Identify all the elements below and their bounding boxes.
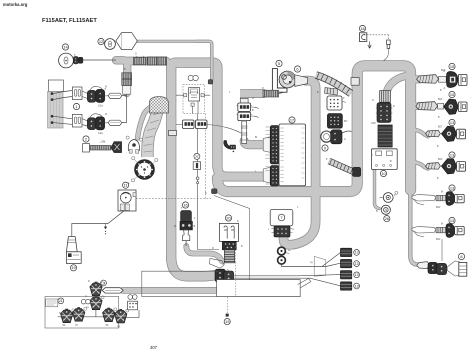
- rectifier connector: [376, 103, 393, 123]
- node 26 label: [384, 216, 390, 222]
- svg-text:P: P: [343, 98, 345, 100]
- wire harness outlines layer: [116, 41, 428, 290]
- svg-text:F115AET, FL115AET: F115AET, FL115AET: [42, 18, 97, 24]
- svg-text:13: 13: [450, 218, 454, 223]
- svg-text:307: 307: [150, 345, 158, 350]
- svg-text:L: L: [268, 229, 270, 231]
- wire band to lower ECU connector outline: [217, 165, 263, 177]
- node 15 label row1: [449, 63, 455, 69]
- lead crimp row6: [436, 227, 446, 232]
- node 4 label: [128, 177, 135, 185]
- node 11 label: [123, 182, 129, 188]
- wire sensor drop core: [375, 170, 380, 209]
- node 1 label: [73, 103, 79, 109]
- hour meter gauge U14: [59, 53, 74, 68]
- wire pulser link vertical: [122, 94, 127, 122]
- wire coil lead row3 outline: [414, 130, 428, 137]
- oil pressure switch: [193, 153, 200, 183]
- rectifier regulator box U10: [371, 149, 397, 170]
- main relay: [189, 88, 200, 101]
- ECU connector strip upper: [270, 126, 279, 165]
- svg-text:11: 11: [124, 183, 128, 188]
- wire rectifier branch core: [386, 76, 405, 101]
- tail loom capsule: [417, 262, 430, 269]
- oil pressure sensor: [381, 205, 390, 214]
- grommet ring 1: [278, 247, 291, 255]
- trim labels: [63, 325, 121, 328]
- pulser coil box 1: [72, 87, 82, 100]
- wire coil stub row1 core: [413, 76, 420, 83]
- battery cone: [66, 237, 77, 252]
- svg-text:8: 8: [460, 254, 462, 259]
- connector white shell below drop: [123, 86, 131, 95]
- joint connector 2: [237, 112, 252, 120]
- wire harness loop L1 top and right leg outline: [171, 63, 217, 167]
- wire stator leads: [53, 91, 72, 125]
- wire trim relay links: [95, 295, 97, 316]
- node 16 label: [182, 202, 188, 208]
- PTT sub connector: [128, 301, 138, 310]
- ignition charge coil pair 2: [87, 114, 104, 135]
- battery cable sleeve: [217, 278, 311, 296]
- node 13 label row6: [449, 217, 455, 223]
- svg-text:1: 1: [75, 104, 77, 109]
- remote connector 2: [340, 259, 351, 267]
- wire T4 thin tail outline: [410, 189, 419, 265]
- svg-text:B/O: B/O: [438, 127, 442, 129]
- svg-text:6: 6: [296, 66, 298, 71]
- injector connector row6: [455, 226, 465, 234]
- wire battery cable band core: [123, 288, 216, 293]
- wire dropping leads from relay box: [198, 114, 219, 250]
- starter cable band: [240, 89, 265, 98]
- wire connector row band outline: [127, 57, 166, 66]
- intake dome: [149, 97, 168, 113]
- thermo sensor: [380, 191, 398, 202]
- node 9 label: [322, 145, 328, 151]
- wire pulser drop band outline: [124, 84, 131, 94]
- battery ribbon cable: [316, 73, 351, 93]
- sensor sub connector white: [327, 96, 346, 110]
- svg-text:L: L: [297, 207, 299, 209]
- wire pulser drop band core: [124, 84, 129, 94]
- node 13 label row5: [449, 185, 455, 191]
- wire gauge lead: [83, 59, 116, 61]
- svg-text:B: B: [440, 90, 442, 92]
- node 20 label: [225, 215, 231, 221]
- svg-text:Br: Br: [255, 136, 258, 139]
- barrel loom funnel: [209, 258, 224, 268]
- oil level sender body: [83, 144, 90, 152]
- wire code labels texture: [59, 54, 446, 316]
- wire harness loop L1 left leg and battery branch outline: [171, 64, 215, 276]
- svg-text:a: a: [181, 208, 183, 210]
- lead capsule 1: [105, 93, 122, 98]
- wire T4 thin tail core: [410, 189, 419, 265]
- wire battery cable band outline: [123, 287, 216, 294]
- clamp on L1 left leg: [169, 131, 177, 136]
- starter motor M: [279, 71, 296, 88]
- engine stop switch S18: [359, 33, 366, 42]
- stator terminal studs: [51, 92, 54, 124]
- trim switch A: [61, 309, 75, 323]
- node 25 labels: [128, 295, 137, 300]
- wire coil stub row1 outline: [413, 75, 420, 83]
- PTT switch connector: [120, 204, 129, 210]
- node label c2: [354, 261, 360, 267]
- ignition coil row2: [444, 99, 459, 114]
- svg-text:13: 13: [355, 273, 359, 277]
- svg-text:B/W: B/W: [438, 159, 443, 161]
- svg-text:B/W: B/W: [438, 99, 443, 101]
- svg-text:1/2a: 1/2a: [98, 132, 103, 135]
- ECU loom funnel upper: [263, 137, 270, 153]
- svg-text:2: 2: [85, 136, 87, 141]
- svg-text:5: 5: [278, 61, 280, 66]
- clamp on band2: [212, 189, 218, 194]
- wire cluster fan stubs: [227, 269, 234, 278]
- svg-text:13: 13: [355, 284, 359, 288]
- remote connector 3: [340, 271, 351, 279]
- rectifier heat block: [378, 125, 392, 147]
- svg-text:R: R: [237, 221, 239, 223]
- ECU loom funnel lower: [263, 167, 270, 183]
- ignition charge coil pair 1: [87, 86, 106, 107]
- ECU connector strip lower: [270, 166, 279, 187]
- svg-text:R: R: [372, 100, 374, 102]
- spark plug lead row4: [426, 163, 441, 170]
- wire row6 drop: [441, 239, 443, 261]
- svg-text:13: 13: [450, 185, 454, 190]
- svg-text:13: 13: [355, 251, 359, 255]
- lead crimp row5: [436, 195, 446, 200]
- ECU pin code ticks left: [266, 127, 270, 184]
- svg-text:R: R: [88, 281, 90, 283]
- fuse barrel on stack: [241, 121, 248, 144]
- wire harness loop L1 top and right leg core: [171, 63, 217, 167]
- wire horn lead outline: [137, 41, 212, 80]
- spark plug lead row2: [416, 102, 438, 111]
- wire starter trunk T2 core: [284, 81, 316, 245]
- svg-text:W: W: [105, 114, 108, 116]
- svg-text:B/W: B/W: [436, 207, 441, 209]
- trim relay E: [90, 296, 104, 310]
- wire PTT bus: [58, 316, 127, 318]
- svg-text:19: 19: [225, 319, 229, 324]
- PTT relay connector: [268, 226, 295, 237]
- svg-text:R: R: [252, 98, 254, 100]
- node 13 label row3: [449, 119, 455, 125]
- svg-text:G: G: [344, 139, 346, 141]
- node 17 label: [289, 117, 295, 123]
- svg-text:16: 16: [183, 202, 187, 207]
- svg-text:B: B: [437, 146, 439, 148]
- svg-text:B/W: B/W: [441, 70, 446, 72]
- starter relay plug: [182, 230, 189, 246]
- svg-text:7: 7: [280, 215, 282, 220]
- svg-text:a: a: [74, 54, 76, 57]
- svg-text:B: B: [437, 178, 439, 180]
- svg-text:G/W: G/W: [371, 123, 376, 125]
- connector block on drop band: [122, 73, 132, 86]
- wire joint connector tails: [251, 107, 259, 118]
- svg-text:B: B: [194, 225, 196, 228]
- wire gauge-to-row band core: [116, 60, 127, 74]
- svg-text:18: 18: [360, 26, 364, 31]
- flywheel leader labels: [131, 157, 158, 182]
- svg-text:1/2a: 1/2a: [98, 105, 103, 108]
- wire pulser box leads: [82, 91, 88, 126]
- node 19b label: [224, 319, 230, 325]
- ignition coil row1: [444, 70, 458, 90]
- wire relay leads: [176, 95, 210, 113]
- wire rectifier branch outline: [386, 76, 405, 101]
- trim connector pair B: [437, 263, 447, 274]
- spark plug lead row3: [426, 130, 441, 137]
- fuel injector row6: [446, 224, 455, 238]
- starter bracket: [272, 69, 287, 93]
- clamp on harness leg: [351, 78, 359, 86]
- wire coil stub row2 outline: [413, 102, 419, 109]
- svg-text:B: B: [376, 211, 378, 213]
- pulser coil box 2: [72, 114, 82, 127]
- sub ribbon end connector: [353, 167, 361, 176]
- starter relay: [174, 211, 196, 230]
- starter output cone: [295, 75, 308, 87]
- svg-text:Sb: Sb: [106, 325, 110, 327]
- node 7 box: [270, 209, 293, 225]
- svg-text:15: 15: [450, 92, 454, 97]
- connector row block A: [134, 56, 146, 65]
- wire gauge-to-row band outline: [116, 60, 127, 74]
- remote connector 1: [340, 248, 351, 256]
- stator upper white box: [48, 80, 63, 92]
- node label c4: [354, 283, 360, 289]
- wire main band2 with loop L2 core: [217, 66, 410, 192]
- loom barrel: [224, 250, 234, 263]
- wire coil lead row4 outline: [414, 162, 428, 169]
- ground at stop switch: [368, 41, 372, 48]
- node 18 label: [359, 25, 365, 31]
- crank position sensor: [126, 136, 143, 153]
- grommet ring 2: [278, 256, 286, 264]
- belt band: [144, 101, 164, 157]
- node 14 label: [62, 44, 68, 50]
- svg-text:B: B: [252, 110, 254, 112]
- svg-text:motorka.org: motorka.org: [3, 2, 28, 7]
- PTT switch meter box: [118, 190, 136, 211]
- svg-text:W: W: [105, 87, 108, 89]
- svg-text:B: B: [241, 246, 243, 248]
- wire dashed drop: [136, 114, 211, 199]
- node 8 label: [458, 253, 464, 259]
- fuse F1: [384, 35, 391, 61]
- svg-text:b: b: [194, 218, 196, 220]
- svg-text:L: L: [229, 92, 231, 94]
- wire sub harness tails: [176, 125, 241, 134]
- wire main band2 with loop L2 outline: [217, 66, 410, 192]
- node 13 label row4: [449, 152, 455, 158]
- wire starter trunk T2 outline: [284, 81, 316, 245]
- svg-text:W: W: [441, 192, 444, 194]
- battery box 19: [66, 252, 81, 264]
- svg-text:→CM: →CM: [99, 140, 106, 144]
- fuse holder block: [222, 241, 236, 249]
- svg-text:P: P: [326, 159, 328, 161]
- relay dashed enclosure: [183, 85, 205, 114]
- wire coil lead row4 core: [414, 162, 428, 169]
- oil level connector: [111, 142, 122, 153]
- wire starter relay elbow outline: [186, 246, 222, 262]
- fan loom outline: [314, 256, 326, 276]
- lead capsule 2: [105, 120, 122, 125]
- svg-text:13: 13: [355, 262, 359, 266]
- node 21 label: [58, 298, 64, 304]
- svg-text:19: 19: [71, 265, 75, 270]
- svg-text:Lg: Lg: [310, 262, 313, 264]
- sub harness connectors pair: [183, 120, 208, 129]
- svg-text:26: 26: [385, 216, 389, 221]
- node 15 label row2: [449, 91, 455, 97]
- svg-text:Lg: Lg: [75, 325, 78, 327]
- injector loom row5: [412, 194, 436, 205]
- svg-text:9: 9: [324, 145, 326, 150]
- svg-text:R: R: [174, 225, 176, 228]
- svg-text:B: B: [438, 117, 440, 119]
- remote connector 4: [340, 282, 351, 290]
- plug lead joint row1: [439, 76, 447, 82]
- svg-text:P: P: [394, 195, 396, 197]
- trim motor D: [115, 309, 129, 323]
- battery cable capsule lug: [102, 288, 123, 293]
- stator shaded box: [48, 92, 63, 129]
- svg-text:12: 12: [99, 39, 103, 44]
- wire band to lower ECU connector core: [217, 165, 263, 177]
- node label c1: [354, 250, 360, 256]
- ignition coil row3: [441, 126, 456, 141]
- svg-text:B/W: B/W: [436, 239, 441, 241]
- wire horn lead core: [137, 41, 212, 80]
- PTT legend box: [46, 299, 58, 307]
- wire crank sensor band core: [138, 105, 169, 138]
- node 2 label: [83, 136, 89, 142]
- trim relay F: [90, 282, 104, 296]
- svg-text:G: G: [293, 229, 295, 231]
- svg-text:Sb: Sb: [63, 325, 67, 327]
- trim switch B: [73, 307, 87, 321]
- svg-text:B: B: [205, 193, 207, 195]
- svg-text:17: 17: [290, 117, 294, 122]
- wire coil lead row3 core: [414, 130, 428, 137]
- ground lug battery: [104, 224, 107, 235]
- wire option dashed drop: [226, 297, 228, 314]
- components layer: [45, 25, 467, 328]
- injector connector row5: [455, 194, 465, 202]
- sensor crimp bundle: [325, 88, 338, 95]
- sub ribbon loom: [329, 160, 354, 174]
- fuse box 20: [219, 223, 238, 241]
- wire connector row band core: [127, 57, 166, 64]
- spark plug row3: [457, 129, 466, 139]
- wire band1 to upper ECU connector outline: [244, 141, 263, 145]
- connector row block B: [147, 57, 166, 65]
- relay terminal lugs: [184, 94, 205, 107]
- spark plug row2: [458, 102, 467, 112]
- horn wire end cap: [208, 80, 212, 84]
- node 19 label: [70, 265, 76, 271]
- hose clamp ring: [321, 131, 332, 142]
- svg-text:A: A: [444, 87, 446, 90]
- flywheel rotor: [136, 161, 153, 178]
- svg-text:B: B: [393, 106, 395, 108]
- trim meter gauge U12: [105, 39, 116, 50]
- svg-text:G: G: [85, 296, 87, 298]
- svg-text:21: 21: [59, 299, 63, 303]
- wire joint connector stack band core: [244, 94, 264, 104]
- svg-text:Lg: Lg: [118, 326, 121, 328]
- trim loom funnel: [447, 261, 459, 276]
- spark plug row4: [457, 162, 466, 172]
- svg-text:B/Y: B/Y: [344, 121, 348, 123]
- rectifier lead crimp: [380, 91, 391, 103]
- wire stop switch dashed lead: [367, 34, 389, 36]
- wire barrel dashed lower: [235, 262, 237, 296]
- wire harness cores layer: [116, 41, 428, 290]
- spark plug row1: [458, 74, 467, 85]
- wire starter cable link: [279, 93, 283, 94]
- wire horn lead overlay: [196, 41, 212, 80]
- speed sensor connector: [331, 130, 352, 144]
- harness clip hook: [224, 141, 236, 153]
- svg-text:13: 13: [450, 152, 454, 157]
- trim connector pair A: [428, 262, 438, 273]
- node 5 label: [276, 60, 282, 66]
- wire battery lead: [72, 211, 124, 237]
- spark plug lead row1: [417, 75, 439, 84]
- node 22 labels: [81, 299, 90, 304]
- ignition coil row4: [441, 159, 456, 174]
- wire trim motor link: [126, 310, 139, 318]
- trim harness connector: [459, 262, 467, 276]
- svg-text:Lg: Lg: [86, 307, 89, 309]
- wire starter relay elbow core: [186, 246, 222, 262]
- injector loom row6: [412, 226, 436, 237]
- node 10 label: [380, 170, 386, 176]
- wire coil stub row2 core: [413, 103, 419, 109]
- trim motor C: [103, 308, 117, 322]
- svg-text:13: 13: [450, 120, 454, 125]
- wire band1 to upper ECU connector core: [244, 141, 263, 145]
- horn loom hexagon: [116, 33, 138, 50]
- svg-text:W: W: [441, 224, 444, 226]
- oil level sender rod: [90, 145, 111, 150]
- node 24 label: [101, 280, 107, 286]
- node 6 label: [294, 66, 300, 72]
- svg-text:G: G: [135, 54, 137, 56]
- wire cluster tails: [234, 275, 341, 286]
- connector pair at gauge: [74, 54, 83, 64]
- wire grommet drop: [282, 253, 341, 267]
- wire hexagon inner tick: [121, 33, 123, 50]
- fuel injector row5: [446, 192, 455, 206]
- wire crank sensor band outline: [138, 105, 169, 138]
- starter cable hatched connector: [263, 90, 279, 97]
- battery lead connector pair: [215, 269, 234, 282]
- svg-text:15: 15: [450, 64, 454, 69]
- sensor main connector dark: [327, 114, 342, 129]
- node 12 label: [98, 38, 104, 44]
- wire harness loop L1 left leg and battery branch core: [171, 64, 215, 276]
